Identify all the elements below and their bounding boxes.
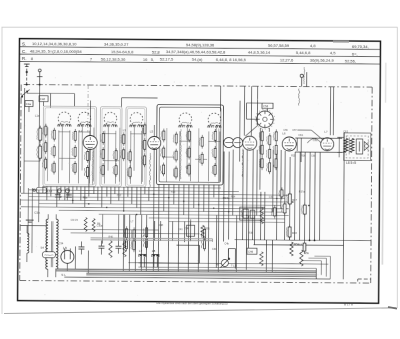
- wire: [38, 85, 41, 190]
- resistor R17: [73, 129, 77, 143]
- wire: [264, 192, 266, 240]
- wire: [138, 245, 199, 263]
- wire: [295, 137, 342, 139]
- wire: [215, 126, 217, 169]
- svg-text:C4b: C4b: [212, 247, 217, 251]
- wire: [60, 186, 62, 193]
- svg-text:7 L.B: 7 L.B: [231, 263, 237, 267]
- wire: [140, 131, 142, 184]
- wire: [332, 87, 334, 135]
- shield can 3 (IF box): [156, 105, 223, 185]
- wire: [207, 131, 209, 181]
- resistor R49: [300, 250, 310, 266]
- svg-text:10,12,14,34,8,36,38,8,10: 10,12,14,34,8,36,38,8,10: [32, 41, 77, 46]
- wire: [114, 187, 116, 194]
- capacitor C30: [55, 189, 61, 197]
- junction: [136, 214, 137, 215]
- wire: [46, 127, 48, 181]
- resistor R12: [43, 140, 47, 154]
- capacitor C4a: [25, 101, 33, 112]
- wire: [118, 215, 120, 241]
- resistor R33: [279, 187, 283, 199]
- capacitor C48: [39, 96, 48, 106]
- wire: [217, 184, 220, 271]
- svg-text:C63: C63: [343, 130, 348, 133]
- wire: [21, 207, 289, 209]
- svg-text:L3: L3: [123, 128, 127, 132]
- wire: [23, 88, 26, 193]
- wire: [242, 150, 245, 240]
- resistor R33: [141, 153, 145, 167]
- label R6a: [83, 196, 88, 199]
- schematic frame: [18, 39, 381, 304]
- wire: [80, 186, 82, 200]
- oscillator coil b: [233, 138, 243, 148]
- svg-text:4,5: 4,5: [330, 50, 336, 55]
- wire: [154, 221, 156, 241]
- resistor R44: [199, 152, 203, 166]
- wire: [162, 156, 174, 158]
- svg-text:C4a: C4a: [26, 102, 32, 106]
- wire: [253, 244, 343, 247]
- resistor R40: [109, 241, 113, 258]
- wire: [46, 186, 48, 200]
- capacitor C35: [66, 189, 72, 197]
- resistor R35: [161, 146, 165, 160]
- scan smudge: [333, 41, 349, 43]
- wire: [58, 131, 70, 133]
- tube V3: [243, 136, 257, 150]
- resistor R53: [266, 160, 270, 174]
- wire: [307, 139, 321, 144]
- svg-text:R35: R35: [291, 154, 296, 157]
- svg-text:C9 C5: C9 C5: [71, 219, 79, 222]
- wire: [31, 188, 33, 253]
- wire: [81, 125, 83, 170]
- antenna terminal A2: [37, 69, 43, 85]
- wire: [297, 138, 301, 162]
- chassis boundary right: [371, 87, 372, 283]
- wire: [243, 86, 245, 135]
- wire: [280, 150, 282, 209]
- parts table row C: [22, 48, 358, 56]
- resistor R30: [127, 165, 131, 179]
- wire: [106, 187, 108, 197]
- wire: [68, 130, 70, 183]
- wire: [179, 140, 191, 142]
- capacitor C44a: [241, 209, 248, 218]
- svg-text:C4b: C4b: [224, 243, 229, 246]
- label C43: [269, 196, 274, 199]
- junction: [308, 205, 309, 206]
- label C30a: [97, 225, 103, 228]
- wire: [133, 125, 135, 170]
- wire: [167, 184, 170, 271]
- wire: [149, 217, 285, 220]
- wire: [59, 157, 75, 159]
- junction: [39, 84, 41, 86]
- wire: [250, 86, 252, 135]
- wire: [131, 187, 133, 204]
- svg-text:L6: L6: [282, 131, 286, 135]
- mains winding: [27, 225, 29, 262]
- wire: [203, 184, 205, 211]
- wire: [160, 221, 162, 241]
- svg-text:R34a: R34a: [223, 196, 230, 200]
- wire: [227, 249, 229, 260]
- rectifier tube V7: [61, 248, 74, 270]
- resistor R38: [173, 149, 177, 163]
- svg-text:C48: C48: [40, 97, 46, 101]
- svg-text:52,8: 52,8: [152, 49, 161, 54]
- wire: [309, 152, 312, 240]
- resistor R31: [201, 225, 210, 237]
- junction: [168, 197, 169, 198]
- svg-text:R38: R38: [292, 232, 297, 235]
- shield can 2a: [100, 107, 122, 187]
- svg-text:C56: C56: [283, 129, 288, 132]
- wire: [157, 184, 160, 271]
- resistor R21: [84, 165, 88, 179]
- wire: [99, 214, 289, 215]
- wire: [129, 131, 131, 184]
- capacitor C46: [247, 248, 257, 254]
- chassis boundary bottom: [20, 281, 371, 284]
- label R16: [171, 191, 176, 194]
- resistor R11: [43, 124, 47, 138]
- wire: [213, 184, 215, 197]
- label R24: [231, 196, 236, 199]
- resistor R50: [259, 156, 263, 170]
- svg-text:6=,: 6=,: [352, 51, 358, 56]
- wire: [122, 215, 124, 271]
- svg-text:C34: C34: [58, 241, 63, 245]
- wire: [228, 249, 235, 269]
- svg-text:R.: R.: [22, 56, 27, 61]
- wire: [107, 125, 109, 170]
- wire: [319, 152, 322, 240]
- capacitor C32: [98, 241, 104, 255]
- resistor R18: [72, 145, 76, 159]
- wire: [193, 184, 195, 208]
- wire: [122, 98, 158, 107]
- capacitor C3a: [26, 211, 40, 223]
- capacitor C29: [72, 161, 76, 175]
- capacitor C47: [281, 201, 286, 215]
- wire: [128, 215, 130, 271]
- capacitor C44: [161, 129, 165, 143]
- wire: [38, 190, 40, 222]
- svg-text:C57: C57: [292, 129, 297, 132]
- wire: [92, 128, 94, 182]
- wire: [27, 188, 29, 235]
- paper tint: [18, 39, 380, 303]
- wire: [172, 221, 174, 241]
- svg-text:36(9),56,24,9: 36(9),56,24,9: [310, 58, 335, 63]
- wire: [247, 216, 249, 248]
- wire: [29, 190, 239, 192]
- wire: [118, 187, 120, 201]
- svg-text:R37: R37: [292, 199, 297, 202]
- wire: [127, 187, 129, 197]
- label L6: [142, 235, 145, 238]
- label R35 R36: [291, 154, 316, 157]
- capacitor C60: [301, 203, 306, 217]
- wire: [252, 150, 255, 240]
- wire: [39, 204, 281, 206]
- parts table row lines: [19, 47, 380, 64]
- resistor R42: [186, 163, 190, 177]
- wire: [239, 101, 241, 162]
- wire: [265, 240, 267, 272]
- resistor R29: [127, 149, 131, 163]
- wave switch S0: [21, 90, 29, 98]
- svg-text:S.: S.: [22, 41, 26, 46]
- svg-text:54,58(9),128,36: 54,58(9),128,36: [186, 42, 215, 47]
- svg-text:M5a: M5a: [294, 242, 300, 246]
- junction: [292, 201, 293, 202]
- capacitor C53: [199, 135, 203, 149]
- capacitor C47: [173, 132, 177, 146]
- label L7: [131, 220, 134, 223]
- junction: [276, 198, 277, 199]
- wire: [343, 132, 344, 279]
- wire: [299, 152, 302, 240]
- scan smudge: [382, 63, 385, 265]
- wire: [61, 125, 63, 170]
- shield can 2b: [125, 107, 146, 187]
- wire: [140, 215, 142, 271]
- wire: [21, 225, 47, 227]
- svg-text:C38: C38: [159, 224, 164, 227]
- label R30: [249, 232, 254, 235]
- junction: [183, 201, 184, 202]
- wire: [189, 131, 191, 181]
- tone box: [240, 207, 265, 220]
- wire: [145, 215, 147, 271]
- resistor R60: [131, 238, 135, 252]
- wire: [123, 187, 125, 211]
- svg-text:L7: L7: [139, 249, 143, 253]
- wire: [88, 161, 90, 197]
- wire: [21, 200, 289, 202]
- chassis dash step: [358, 279, 371, 283]
- junction: [60, 196, 61, 197]
- junction: [246, 215, 247, 216]
- capacitor C62: [267, 147, 271, 161]
- shield bus: [91, 238, 213, 242]
- svg-text:C62: C62: [313, 138, 318, 142]
- resistor R47: [212, 163, 216, 177]
- junction: [213, 208, 214, 209]
- capacitor C1: [37, 126, 42, 143]
- wire: [268, 128, 270, 132]
- wire: [235, 240, 371, 241]
- wire: [197, 128, 199, 182]
- resistor R34a: [223, 196, 264, 224]
- wire: [124, 215, 126, 241]
- wire: [76, 186, 78, 190]
- loudspeaker S5: [356, 139, 369, 154]
- coil L2: [77, 112, 91, 133]
- wire: [128, 263, 328, 264]
- wire: [219, 86, 221, 111]
- capacitor C38: [121, 147, 125, 161]
- resistor R57: [124, 226, 128, 240]
- capacitor C64: [297, 241, 305, 254]
- wire: [141, 128, 143, 182]
- svg-text:52,56,: 52,56,: [345, 58, 356, 63]
- wire: [68, 186, 70, 196]
- wire: [178, 131, 180, 181]
- svg-text:C12: C12: [117, 194, 122, 197]
- capacitor C33: [42, 252, 55, 258]
- svg-text:54,(a): 54,(a): [192, 57, 203, 62]
- label C12: [117, 194, 122, 197]
- resistor R63: [202, 227, 206, 241]
- wire: [59, 210, 287, 212]
- svg-text:S4: S4: [40, 246, 44, 250]
- IF coil L5b: [208, 113, 222, 128]
- capacitor C45a: [271, 205, 276, 218]
- wire: [130, 133, 142, 135]
- resistor R54: [273, 129, 277, 143]
- wire: [43, 187, 221, 188]
- resistor R41: [123, 241, 127, 257]
- antenna lead label: [299, 89, 300, 106]
- wire: [56, 186, 58, 207]
- junction: [123, 210, 124, 211]
- label R40: [109, 236, 114, 239]
- junction: [228, 211, 229, 212]
- svg-text:L8 5=5: L8 5=5: [346, 161, 356, 165]
- svg-text:C41: C41: [178, 228, 183, 231]
- wire: [215, 215, 217, 267]
- wire: [195, 158, 207, 160]
- capacitor C37: [115, 241, 121, 254]
- svg-text:5,: 5,: [151, 57, 154, 62]
- sheet number: [344, 302, 353, 306]
- wire: [64, 186, 66, 200]
- volume control M: [212, 247, 237, 268]
- wire: [102, 215, 104, 244]
- resistor R38: [286, 224, 297, 239]
- ground terminal E: [300, 67, 307, 87]
- terminal: [57, 189, 61, 201]
- svg-text:44,8,5,36,14: 44,8,5,36,14: [248, 50, 271, 55]
- wire: [183, 184, 185, 215]
- wire: [208, 140, 220, 142]
- label C9 C5: [71, 219, 79, 222]
- wire: [87, 251, 89, 274]
- svg-text:C46: C46: [248, 250, 254, 254]
- wire: [337, 137, 344, 157]
- output transformer L8: [343, 130, 371, 160]
- wire: [63, 228, 159, 231]
- resistor R14: [51, 128, 55, 142]
- wire: [42, 186, 44, 193]
- wire: [29, 197, 285, 199]
- svg-text:34,36,35,0.27: 34,36,35,0.27: [104, 42, 129, 47]
- page bottom edge: [4, 307, 397, 314]
- svg-text:C.: C.: [22, 49, 27, 54]
- resistor R51: [267, 133, 271, 147]
- choke L10: [33, 187, 53, 193]
- chassis boundary left: [20, 85, 21, 281]
- shield can 1: [43, 106, 97, 186]
- resistor R26: [113, 163, 117, 177]
- svg-text:4,8: 4,8: [310, 43, 316, 48]
- wire: [50, 186, 52, 196]
- chassis boundary top: [24, 85, 372, 88]
- capacitor C65: [273, 143, 277, 157]
- wire: [235, 216, 237, 272]
- antenna terminal A1: [24, 64, 30, 85]
- capacitor C71: [143, 225, 147, 239]
- wire: [297, 130, 323, 140]
- resistor R23: [100, 147, 104, 161]
- label R37a: [299, 191, 305, 194]
- wire: [246, 103, 261, 119]
- oscillator coil a: [224, 137, 234, 147]
- label mark: [329, 200, 330, 203]
- svg-text:R31: R31: [205, 227, 210, 230]
- wire: [187, 184, 190, 271]
- wire: [78, 131, 90, 133]
- jack L7: [139, 249, 146, 267]
- wire: [256, 150, 258, 216]
- junction: [26, 84, 28, 86]
- wire: [232, 150, 234, 216]
- tube V2: [147, 125, 160, 191]
- svg-text:L5: L5: [150, 129, 154, 133]
- resistor R20: [84, 149, 88, 163]
- wire: [245, 126, 257, 137]
- wire: [245, 150, 248, 270]
- resistor R48: [259, 129, 263, 143]
- junction: [198, 204, 199, 205]
- wire: [276, 150, 279, 240]
- junction: [309, 240, 316, 242]
- wire: [110, 187, 112, 204]
- capacitor C74: [201, 237, 205, 251]
- wire: [118, 128, 120, 182]
- wire: [148, 187, 150, 201]
- coil L3: [104, 112, 118, 127]
- capacitor C35: [113, 148, 117, 162]
- capacitor C59: [259, 143, 263, 157]
- label C9: [67, 189, 71, 192]
- junction: [153, 194, 154, 195]
- resistor R6: [92, 219, 101, 232]
- svg-text:S L: S L: [61, 273, 66, 277]
- junction: [46, 193, 47, 194]
- svg-text:C60: C60: [311, 155, 316, 158]
- wire: [21, 193, 289, 195]
- tube V4: [282, 129, 297, 151]
- page right edge: [396, 27, 398, 308]
- capacitor C23: [42, 157, 46, 171]
- magic eye tube V6: [255, 109, 275, 129]
- wire: [165, 128, 167, 182]
- svg-text:C3A: C3A: [34, 211, 40, 215]
- label L1a: [35, 114, 40, 118]
- wire: [136, 187, 138, 208]
- ground bus: [64, 277, 330, 279]
- wire: [294, 152, 297, 240]
- svg-text:56,12,38,5,36: 56,12,38,5,36: [101, 56, 126, 61]
- svg-text:M5b: M5b: [304, 251, 310, 255]
